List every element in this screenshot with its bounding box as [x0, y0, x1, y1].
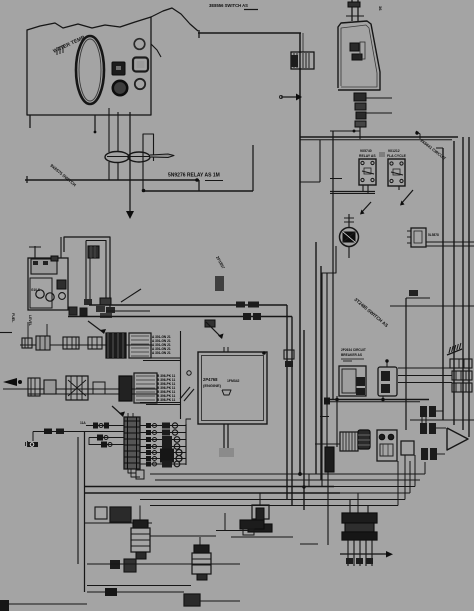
svg-text:A 301-GN 21: A 301-GN 21 [152, 351, 171, 355]
gauge G2 highlight [137, 61, 145, 68]
wire panel leg x118 [117, 112, 119, 152]
svg-text:B 306-PK 11: B 306-PK 11 [157, 398, 175, 402]
wire y493 right [340, 492, 410, 494]
part number underline [244, 9, 258, 11]
wire loop inner [86, 241, 106, 306]
label underline [205, 180, 223, 182]
engine top stub [223, 347, 225, 352]
connector hatch [90, 246, 92, 258]
wire vertical x320 [319, 140, 321, 182]
wire vertical x253 [252, 145, 254, 191]
solenoid S2 wires [259, 493, 261, 505]
wire stub right upper [366, 97, 392, 99]
arrowhead down [126, 211, 134, 219]
battery terminal wire b [60, 237, 62, 258]
wire relay2 drop [398, 186, 400, 190]
wire P1 drop [32, 432, 34, 442]
connector J1 pin [302, 53, 304, 68]
alternator box [340, 432, 358, 451]
fuse rung [124, 432, 140, 434]
blob between relays [379, 152, 385, 157]
wire double y191 [330, 191, 375, 193]
wire vertical x300 [299, 33, 301, 474]
bus nest y499 [140, 499, 405, 501]
battery inner box [30, 278, 52, 308]
svg-text:FLA CYCLE: FLA CYCLE [387, 154, 407, 158]
wire arrow drop x130 [129, 112, 131, 212]
bus y401 [330, 401, 420, 403]
wire x405 drop [404, 455, 406, 500]
wire flasher drop [348, 247, 350, 259]
chain1 tick b [46, 324, 48, 336]
arrowhead [360, 210, 365, 215]
fuse left row A [86, 425, 124, 427]
console bottom connector stack [354, 93, 366, 101]
wire console to bus [359, 127, 361, 139]
starter bottom caps [346, 558, 353, 564]
bus mid stub [106, 310, 150, 312]
chain1 block3 [63, 337, 79, 349]
chain1 block4 [88, 337, 102, 349]
battery post circle b [46, 293, 54, 301]
chain2 labeled block pin [136, 387, 155, 389]
connector J1 pin [308, 53, 310, 68]
chain1 labeled block pin [131, 347, 149, 349]
wire y420 right [410, 419, 474, 421]
wire y368 left [398, 367, 450, 369]
triangle arrow tip wire [456, 428, 458, 434]
wire chain1 bottom stubs [140, 357, 181, 359]
wire left bus to relays [330, 178, 342, 180]
arrowhead [100, 329, 106, 334]
wire y416 left stub [320, 416, 329, 418]
wire panel leg x109 [108, 108, 110, 152]
hatch connector D1 [447, 349, 462, 355]
fuse right row 2 [140, 432, 186, 434]
wire y564 [87, 563, 240, 565]
battery small circle [59, 293, 66, 300]
fuse right row 1 [140, 425, 186, 427]
sender2 cap [194, 545, 209, 553]
wire vertical x304 [303, 330, 305, 510]
junction dots bus399 [335, 398, 339, 402]
fuse ladder body [124, 417, 140, 469]
chain1 dark block pins [107, 333, 109, 358]
chain2 labeled block [134, 373, 157, 403]
wire vertical x292 [291, 317, 293, 506]
wire y592 [87, 591, 184, 593]
junction dot [195, 178, 199, 182]
svg-text:9X1212: 9X1212 [388, 149, 400, 153]
wire double y193 [330, 193, 375, 195]
loop bottom connectors [84, 299, 92, 305]
gauge bezel oval inner [79, 39, 101, 101]
svg-text:1FM342: 1FM342 [227, 379, 240, 383]
svg-text:RELAY AS: RELAY AS [359, 154, 376, 158]
connector on loop [88, 246, 99, 258]
chain1 labeled block pin [131, 355, 149, 357]
instrument panel outline [27, 17, 151, 128]
wire vertical x443 [442, 148, 444, 420]
battery post circle a [36, 290, 44, 298]
engine box corner dot [262, 351, 266, 355]
sender1 body [131, 528, 150, 552]
chain2 labeled block pin [136, 383, 155, 385]
gauge G2 (square ring) [133, 58, 148, 72]
wire console top vertical pair [351, 0, 353, 21]
bus y399 [328, 399, 429, 401]
wire vertical x287 [286, 305, 288, 499]
arrowhead [400, 201, 405, 206]
starter body top [342, 513, 377, 523]
relay K3 body [411, 228, 426, 247]
wire vertical x321 [320, 266, 322, 480]
chain2 labeled block pin [136, 391, 155, 393]
connector pair CP1 [420, 406, 427, 417]
wire feeder x84 [84, 432, 86, 592]
chain1 labeled block pin [131, 335, 149, 337]
solenoid S2 base [248, 524, 272, 532]
console outline [338, 21, 380, 90]
breaker A inner [342, 369, 356, 393]
small box B2 [110, 507, 131, 522]
hook end cap [280, 96, 283, 99]
wire x349 ticks [344, 217, 354, 219]
diagonal label blob [215, 276, 224, 291]
alternator hatch [345, 432, 347, 451]
chain1 labeled block [129, 333, 151, 358]
fuse right row 3 [140, 439, 186, 441]
svg-text:11A: 11A [80, 421, 86, 425]
nest right corner b [333, 487, 335, 494]
chain2 labeled block pin [136, 379, 155, 381]
battery cell caps [33, 261, 38, 265]
fuse left row C [89, 444, 124, 446]
battery side blob [57, 280, 66, 289]
flasher F1 circle [340, 228, 359, 247]
relay K1 pins [361, 161, 364, 164]
chain1 left plug [22, 338, 32, 348]
chain2 labeled block pin [136, 375, 155, 377]
fuse rung [124, 456, 140, 458]
junction dot [142, 189, 146, 193]
breaker A body [339, 366, 366, 396]
fuse bottom stubs [128, 469, 136, 473]
fuse collector vertical right [185, 424, 187, 465]
solenoid inner [380, 444, 393, 456]
hatch tick [452, 346, 454, 352]
dark bar x328 [325, 447, 334, 472]
connector J1 hatched [291, 52, 314, 69]
solenoid S2 body [252, 505, 269, 519]
console top connector [348, 2, 360, 7]
diag arrow small [361, 202, 371, 213]
wire y537 [231, 536, 293, 538]
console switch block 2 [352, 54, 362, 60]
wire vertical x463 [462, 137, 464, 430]
wire flasher top [348, 214, 350, 228]
wire corner x416 [416, 131, 420, 139]
indicator lamp (dark circle) [113, 81, 127, 95]
wire y306 [390, 305, 474, 307]
sender1 wire right [150, 535, 216, 537]
chain2 labeled block pin [136, 399, 155, 401]
panel leg [94, 115, 96, 132]
solenoid block [377, 430, 397, 461]
junction blob [409, 290, 418, 296]
diag arrow below bus [206, 322, 222, 338]
chain2 labeled block pin [136, 395, 155, 397]
wire vertical x327 [326, 273, 328, 447]
connector blob on bus 2 [248, 302, 259, 308]
chain2 block2 [44, 380, 56, 394]
chain2 wire lower [28, 393, 157, 395]
arrowhead [119, 412, 125, 418]
wire x415 up [414, 455, 416, 487]
svg-text:36: 36 [378, 6, 383, 11]
chain2 dark block [119, 376, 132, 401]
connector pair lower bus [243, 313, 251, 320]
wire starter feeds [349, 500, 351, 514]
sender1 feed [139, 506, 141, 521]
wire step down [198, 180, 200, 191]
P1 end component [28, 442, 38, 447]
switch S1 spot [116, 66, 121, 70]
solenoid S2 core [256, 508, 264, 525]
bus left end tick [26, 176, 28, 183]
console top tick [346, 15, 364, 17]
diagonal wire to bus [121, 289, 141, 302]
hatch connector D3 [452, 371, 472, 380]
diag arrow from K2 [401, 190, 413, 204]
wire y382 left [398, 382, 452, 384]
wire x328 down [327, 472, 329, 545]
chain1 labeled block pin [131, 351, 149, 353]
console inner edge [341, 25, 377, 87]
wire y601 left [0, 603, 87, 605]
junction dot x304 [302, 485, 305, 488]
starter body mid [345, 523, 374, 532]
diag marks right of chain2 [180, 387, 190, 399]
wire tick at left end [198, 30, 200, 38]
wire pairs link [436, 410, 443, 412]
wire relay1 drop a [362, 185, 364, 192]
switch S1 (dark square) [112, 62, 125, 75]
corner blob [0, 600, 9, 611]
chain2 small circle [187, 371, 191, 375]
connector J1 pin [305, 53, 307, 68]
flasher bowtie [343, 232, 356, 243]
bus nest y493 [85, 492, 341, 494]
starter crossbar [340, 553, 386, 555]
battery box [28, 258, 68, 310]
wire stub left of starter [300, 543, 318, 545]
svg-text:5N9276 RELAY AS 1M: 5N9276 RELAY AS 1M [168, 173, 220, 179]
arrowhead right [386, 551, 393, 558]
svg-text:LEVEL: LEVEL [28, 315, 32, 326]
diag arrow chain1 [88, 321, 104, 333]
svg-text:2P4768: 2P4768 [203, 377, 218, 382]
console switch slot [360, 42, 365, 59]
fuse rung [124, 444, 140, 446]
triangle arrow [447, 428, 468, 450]
battery top cell [31, 259, 57, 274]
starter brush hatch [347, 540, 349, 566]
small dark square x327 [324, 398, 330, 405]
bus mid y316 [68, 316, 292, 318]
wire stub left edge [0, 332, 12, 334]
fuse bottom comp [136, 470, 144, 479]
wire x398 drop [397, 461, 399, 506]
svg-text:BREAKER AS: BREAKER AS [341, 353, 362, 357]
wire plug to ladder [33, 431, 124, 433]
connector blob on bus [236, 302, 245, 308]
fuse rung [124, 462, 140, 464]
bus left connector blobs [69, 307, 77, 315]
wire hook x143 [143, 134, 154, 191]
junction dot [353, 130, 356, 133]
wire panel leg below ellipse [108, 162, 110, 180]
connector pair CP3 [421, 448, 428, 460]
third sender top [240, 520, 264, 529]
bus nest y480 [155, 479, 321, 481]
wire y486 right [334, 486, 415, 488]
svg-text:5L5878: 5L5878 [428, 233, 439, 237]
alternator hatch [342, 432, 344, 451]
bus left horizontal y180 [25, 179, 199, 181]
cable bundle tail [150, 154, 174, 158]
relay K3 inner [414, 231, 422, 243]
wire from panel right [151, 44, 161, 57]
chain2 x mark [68, 380, 86, 396]
wire y601 right [200, 600, 240, 602]
bus top horizontal [300, 136, 458, 138]
starter body low [342, 532, 377, 540]
fuse rung [124, 420, 140, 422]
wire y474 right [309, 473, 425, 475]
battery terminal wire a [34, 246, 36, 258]
bus nest y486 [85, 486, 335, 488]
chain2 block4 [93, 382, 105, 394]
connector on vertical pair [284, 350, 294, 359]
engine drop blob [219, 448, 234, 457]
chain2 block1 [28, 378, 40, 396]
fuse right row 7 [140, 463, 186, 465]
engine box inner [202, 356, 264, 421]
svg-text:2P2634 CIRCUIT: 2P2634 CIRCUIT [341, 348, 366, 352]
chain2 wire [3, 388, 157, 390]
wire x422 pair down [421, 415, 423, 430]
fuse collector top stub [186, 419, 191, 424]
svg-text:9X5740: 9X5740 [360, 149, 372, 153]
fuse right row 6 [140, 458, 186, 460]
hatch tick [459, 343, 461, 349]
breaker B pin [386, 361, 388, 367]
fuse ladder top ticks [127, 413, 129, 417]
wire short y131 [330, 130, 360, 132]
wire y246 right [426, 245, 474, 247]
bus nest y474 [150, 473, 309, 475]
fuse left row B [89, 437, 124, 439]
small box right of solenoid [401, 441, 414, 455]
sender2 tip [197, 574, 207, 580]
wire chain2 bottom stubs [140, 402, 181, 404]
wire hook with arrow [281, 96, 296, 98]
relay K3 pins [407, 230, 411, 232]
hatch tick [454, 345, 456, 351]
regulator cylinder [358, 430, 370, 449]
bottom blobs y564 [110, 560, 120, 569]
alternator hatch [351, 432, 353, 451]
breaker A blobs [356, 377, 365, 386]
chain2 left arrow plug [3, 378, 17, 386]
panel top wire to right [151, 8, 198, 31]
hatch tick [449, 347, 451, 353]
svg-text:(ENGINE): (ENGINE) [203, 383, 222, 388]
connector J1 pin [293, 53, 295, 68]
connector J1 pin [299, 53, 301, 68]
svg-text:G10 S: G10 S [31, 288, 40, 292]
relay K1 coil mark [362, 171, 374, 174]
fuse left tick [88, 438, 90, 446]
relay K2 pins [390, 162, 393, 165]
P1 end ticks [25, 442, 27, 446]
relay K2 coil mark [393, 169, 400, 175]
chain1 labeled block pin [131, 339, 149, 341]
wire collector vertical x180 [180, 331, 182, 419]
wire vertical x337 [336, 396, 338, 447]
wire corner right x406 [405, 298, 407, 430]
bus mid y304 [89, 304, 287, 306]
wire y444 right short [315, 443, 340, 445]
wire vertical x316 [315, 242, 317, 474]
fuse rung [124, 426, 140, 428]
wire loop left pair [89, 258, 91, 303]
sender2 feed [199, 537, 201, 545]
wire feeder x78 [77, 437, 79, 564]
wire vertical x333 [332, 131, 334, 399]
wire vertical x454 [453, 141, 455, 425]
wire x225 drop [224, 513, 226, 531]
wire relay1 drop b [367, 185, 369, 194]
fuse right row 5 [140, 452, 186, 454]
feeder top corner [85, 431, 101, 433]
chain1 dark block [106, 333, 126, 358]
engine box outer [198, 352, 267, 424]
small box B1 [95, 507, 107, 519]
relay K2 body [388, 159, 405, 186]
engine symbol [222, 390, 231, 395]
nest right corner a [308, 474, 310, 487]
bus second y191 [143, 190, 253, 192]
alternator hatch [348, 432, 350, 451]
chain2 block3 [66, 376, 88, 400]
gauge G1 (top ring) [134, 39, 145, 50]
connector blob below [285, 361, 293, 367]
fuse rung [124, 438, 140, 440]
breaker label marks [341, 358, 364, 360]
alternator hatch [354, 432, 356, 451]
dark box bottom [105, 588, 117, 596]
wire loop inner left [85, 241, 87, 304]
panel label hatch [56, 47, 58, 55]
arrowhead [296, 94, 302, 101]
wire y585 [87, 585, 191, 587]
cable bundle ellipse A [105, 152, 129, 163]
component cluster below bus [205, 320, 215, 327]
sender2 body [192, 553, 211, 574]
plug P1 left [44, 429, 52, 435]
